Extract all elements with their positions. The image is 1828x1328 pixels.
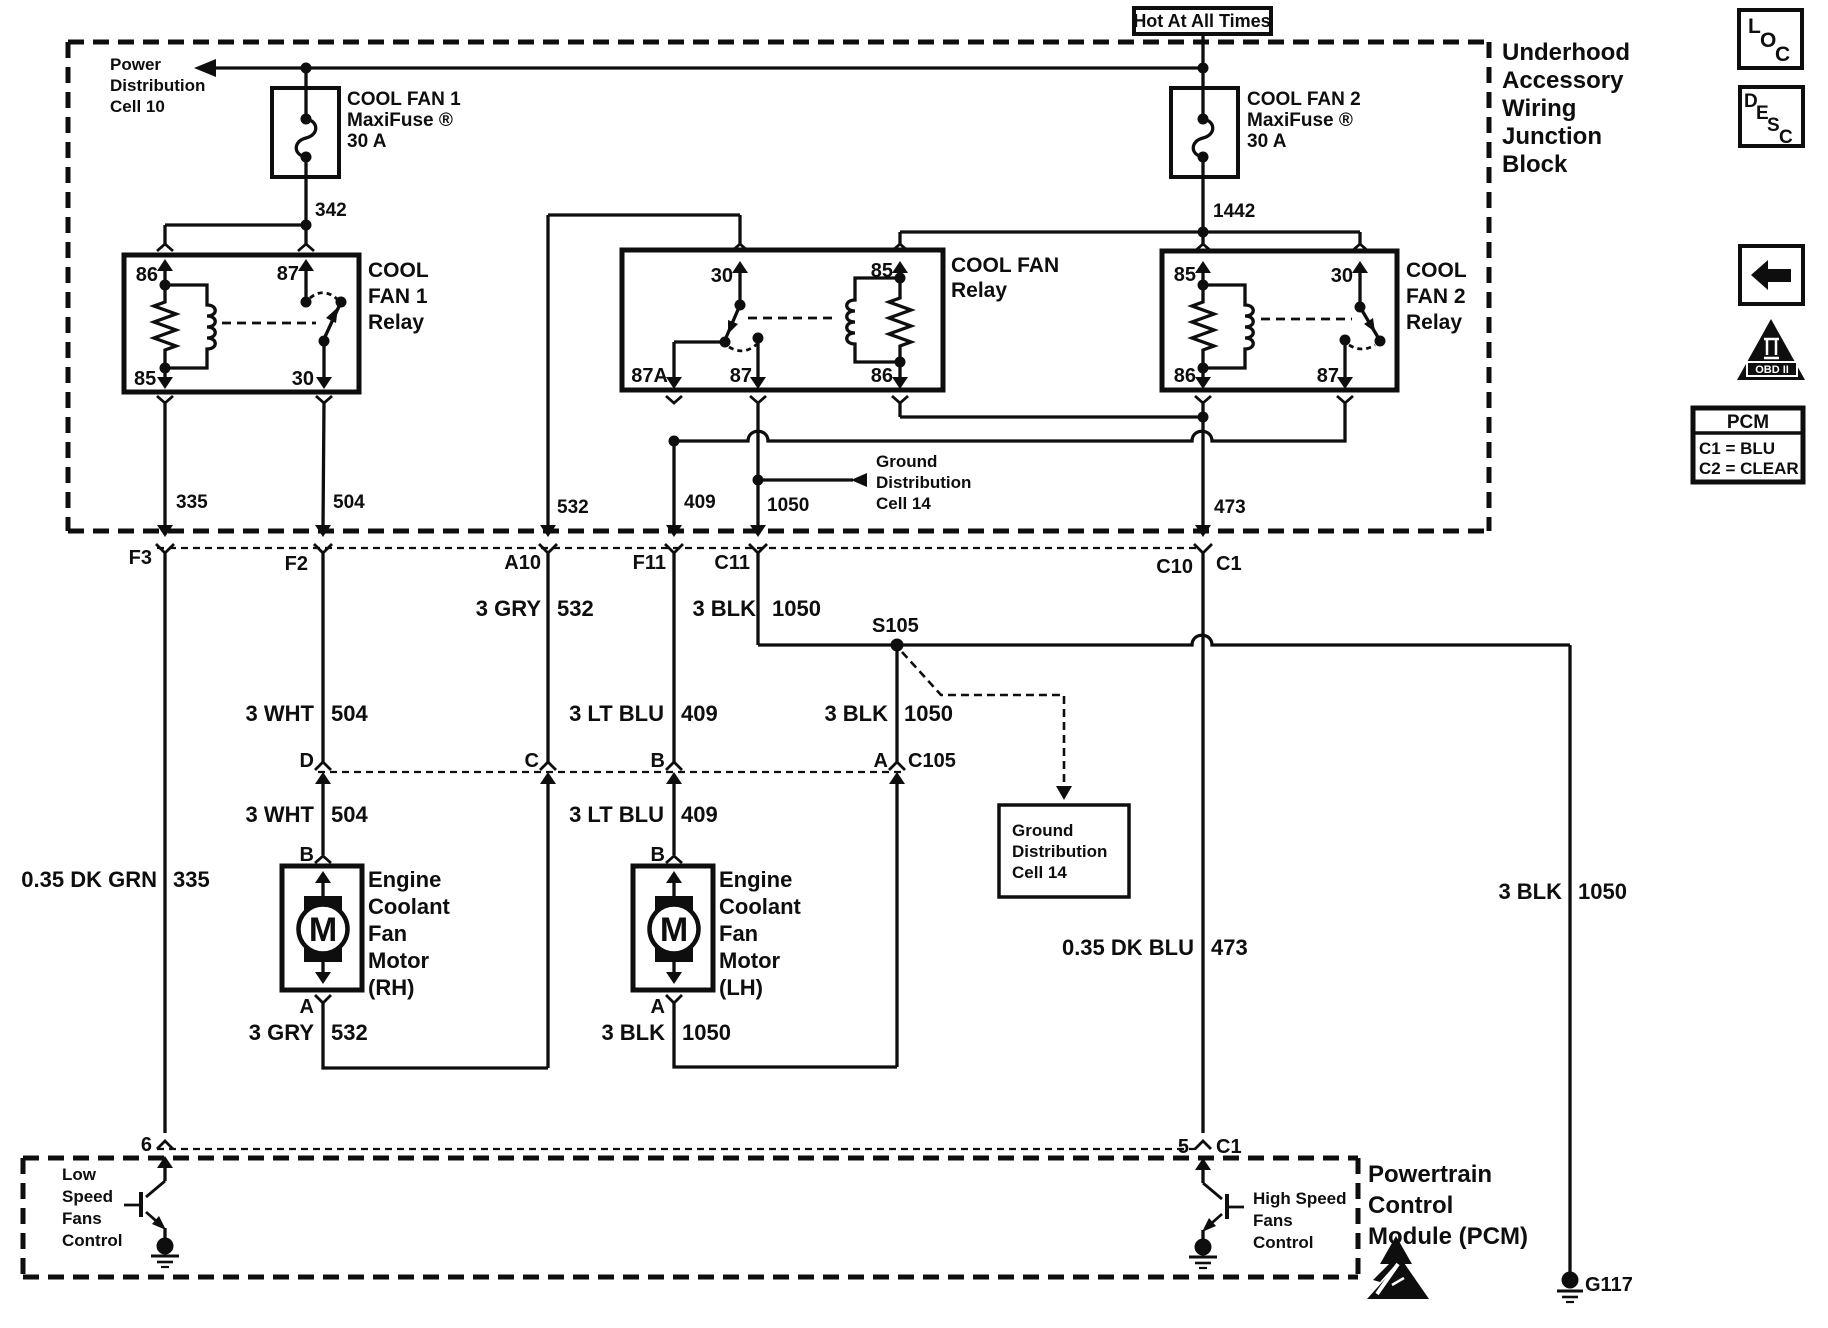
svg-text:M: M (660, 911, 688, 949)
svg-text:Coolant: Coolant (368, 894, 451, 919)
svg-text:1442: 1442 (1213, 201, 1255, 222)
resistor inside relay K2 (889, 278, 911, 362)
coil inside relay K2 (847, 278, 900, 362)
svg-text:504: 504 (331, 802, 368, 827)
dashed actuator line relay K2 (748, 317, 838, 320)
resistor inside relay K1 (154, 285, 176, 368)
wire: net 532 A10 to C105 C (546, 553, 549, 762)
svg-text:1050: 1050 (904, 701, 953, 726)
pin 87 relay K1 (277, 259, 314, 302)
wire: net 1050 right leg to G117 (1568, 645, 1571, 1273)
svg-text:Fan: Fan (719, 921, 758, 946)
wire: net 335 F3 down to PCM pin 6 (163, 553, 166, 1133)
relay K3: COOL FAN 2 Relay box (1162, 251, 1397, 390)
label: 3 WHT 504 (upper) (246, 701, 369, 726)
svg-text:30: 30 (292, 368, 314, 390)
svg-text:3 BLK: 3 BLK (692, 596, 756, 621)
wire: net 1050 C11 down and across to S105 (756, 553, 759, 645)
svg-text:Relay: Relay (951, 279, 1007, 302)
dashed contact arc relay K3 (1349, 345, 1375, 349)
relay K1: COOL FAN 1 Relay box (124, 255, 359, 392)
svg-text:C2 = CLEAR: C2 = CLEAR (1699, 459, 1799, 478)
ground: Q2 emitter ground (1189, 1239, 1217, 1269)
svg-text:1050: 1050 (767, 495, 809, 516)
svg-text:Junction: Junction (1502, 123, 1602, 150)
svg-text:(RH): (RH) (368, 975, 414, 1000)
svg-text:30 A: 30 A (1247, 131, 1287, 152)
svg-text:87A: 87A (631, 365, 668, 387)
wire: 342 branch to relay1 pins 86 and 87 (157, 225, 314, 251)
wire: motor M1 pin A loop to net 532 (323, 1003, 548, 1068)
svg-text:O: O (1760, 29, 1776, 52)
coil inside relay K3 (1203, 285, 1253, 368)
wire: net 504 from relay K1 pin 30 to border (315, 403, 365, 537)
svg-text:COOL FAN 1: COOL FAN 1 (347, 89, 461, 110)
dashed actuator line relay K3 (1261, 318, 1352, 321)
label: 3 LT BLU 409 (lower) (569, 802, 718, 827)
label: Engine Coolant Fan Motor (LH) (719, 867, 802, 1000)
flag: Hot At All Times (1133, 8, 1271, 34)
svg-text:3 BLK: 3 BLK (1498, 879, 1562, 904)
svg-text:Control: Control (62, 1231, 122, 1250)
svg-text:3 BLK: 3 BLK (601, 1020, 665, 1045)
legend: PCM connector colors (1693, 408, 1803, 482)
label: 3 BLK 1050 (at C105) (824, 701, 953, 726)
label: Engine Coolant Fan Motor (RH) (368, 867, 451, 1000)
motor M1: Engine Coolant Fan Motor (RH) (282, 844, 362, 1018)
svg-text:87: 87 (277, 263, 299, 285)
node: relay K2 pin 87 dot (753, 333, 764, 344)
svg-text:Ground: Ground (876, 452, 937, 471)
node: 342 junction dot (301, 220, 312, 231)
label: 3 BLK 1050 (upper) (692, 596, 821, 621)
svg-text:Fan: Fan (368, 921, 407, 946)
svg-text:COOL: COOL (368, 259, 429, 282)
node: relay K2 coil bottom dot (895, 357, 906, 368)
wire: net 473 C1 down to PCM pin 5 (1201, 553, 1204, 1133)
svg-text:A: A (651, 996, 665, 1018)
svg-text:0.35 DK GRN: 0.35 DK GRN (21, 867, 157, 892)
label: COOL FAN Relay (951, 254, 1059, 302)
svg-text:Wiring: Wiring (1502, 95, 1576, 122)
svg-text:86: 86 (871, 365, 893, 387)
svg-text:335: 335 (173, 867, 210, 892)
svg-text:409: 409 (681, 802, 718, 827)
svg-text:Relay: Relay (368, 311, 424, 334)
svg-text:Control: Control (1253, 1233, 1313, 1252)
svg-text:C: C (1779, 127, 1793, 148)
label: 0.35 DK BLU 473 (1062, 935, 1248, 960)
node: relay K3 pin 87 dot (1340, 335, 1351, 346)
icon: LOC box (1739, 10, 1802, 68)
svg-text:85: 85 (134, 368, 156, 390)
switch arm relay K1 (324, 302, 341, 339)
svg-text:A: A (300, 996, 314, 1018)
svg-text:Power: Power (110, 55, 161, 74)
svg-text:COOL: COOL (1406, 259, 1467, 282)
transistor Q2: High Speed Fans Control driver (1195, 1158, 1244, 1241)
svg-text:5: 5 (1178, 1136, 1189, 1158)
svg-text:Distribution: Distribution (876, 473, 971, 492)
pin 86 relay K3 (1174, 365, 1211, 403)
svg-text:Ground: Ground (1012, 821, 1073, 840)
svg-text:3 GRY: 3 GRY (476, 596, 542, 621)
svg-text:1050: 1050 (1578, 879, 1627, 904)
wire: net 409 F11 to C105 B (672, 553, 675, 762)
svg-text:Powertrain: Powertrain (1368, 1161, 1492, 1188)
wire: 1442 bus to relay K2 pin 85 and relay K3 pins (892, 232, 1368, 251)
label: COOL FAN 2 Relay (1406, 259, 1467, 334)
svg-text:PCM: PCM (1727, 412, 1769, 433)
label: High Speed Fans Control (1253, 1189, 1347, 1252)
svg-text:Cell 10: Cell 10 (110, 97, 165, 116)
node: junction dot hot bus (1198, 63, 1209, 74)
svg-text:30: 30 (1331, 265, 1353, 287)
node: relay K1 switch lower dot (319, 336, 330, 347)
svg-text:High Speed: High Speed (1253, 1189, 1347, 1208)
svg-text:S: S (1767, 115, 1780, 136)
node: relay K3 moving contact dot (1375, 336, 1386, 347)
svg-text:3 GRY: 3 GRY (249, 1020, 315, 1045)
transistor Q1: Low Speed Fans Control driver (124, 1156, 173, 1240)
svg-text:473: 473 (1211, 935, 1248, 960)
pin 86 relay K2 (871, 362, 908, 403)
svg-text:FAN 1: FAN 1 (368, 285, 428, 308)
svg-text:Motor: Motor (719, 948, 781, 973)
svg-text:A: A (874, 750, 888, 772)
svg-text:Fans: Fans (1253, 1211, 1293, 1230)
pin 87A relay K2 (631, 342, 725, 403)
svg-text:6: 6 (141, 1134, 152, 1156)
wire: net 1050 from relay K2 pin 87 down (756, 403, 759, 480)
svg-text:C11: C11 (714, 552, 750, 574)
svg-text:3 LT BLU: 3 LT BLU (569, 802, 664, 827)
svg-text:COOL FAN 2: COOL FAN 2 (1247, 89, 1361, 110)
svg-text:M: M (309, 911, 337, 949)
connector B of C105 (651, 750, 682, 855)
node: relay K1 switch pivot dot (301, 297, 312, 308)
svg-text:F3: F3 (129, 547, 152, 569)
svg-text:C: C (1775, 43, 1790, 66)
wire: link relay K2 pin 87A row to relay K3 pin 87 with hops (674, 403, 1345, 441)
ground G117 (1557, 1272, 1633, 1303)
node: relay K1 coil bottom dot (160, 363, 171, 374)
svg-text:30: 30 (711, 265, 733, 287)
label: COOL FAN 1 Relay (368, 259, 429, 334)
node: relay K2 coil top dot (895, 273, 906, 284)
svg-text:MaxiFuse ®: MaxiFuse ® (1247, 110, 1353, 131)
svg-text:G117: G117 (1585, 1274, 1633, 1296)
svg-text:87: 87 (1317, 365, 1339, 387)
connector row C105: thin dashed line (318, 771, 902, 773)
svg-text:532: 532 (331, 1020, 368, 1045)
label: 3 GRY 532 (upper) (476, 596, 594, 621)
icon: back arrow box (1740, 246, 1803, 304)
svg-text:Fans: Fans (62, 1209, 102, 1228)
svg-text:Distribution: Distribution (110, 76, 205, 95)
svg-text:Relay: Relay (1406, 311, 1462, 334)
label: fuse F2 text (1247, 89, 1361, 152)
connector row PCM: thin dashed line (157, 1148, 1196, 1150)
node: relay K2 switch lower dot (720, 337, 731, 348)
svg-text:3 BLK: 3 BLK (824, 701, 888, 726)
svg-text:F2: F2 (285, 553, 308, 575)
label: Underhood Accessory Wiring Junction Block (1502, 39, 1630, 178)
label: Powertrain Control Module (PCM) (1368, 1161, 1528, 1250)
label: 3 LT BLU 409 (upper) (569, 701, 718, 726)
label: 3 BLK 1050 (lower) (601, 1020, 731, 1045)
svg-text:335: 335 (176, 492, 208, 513)
svg-text:C105: C105 (908, 750, 956, 772)
reference arrow to Ground Distribution Cell 14 (758, 473, 867, 487)
node: relay K3 switch pivot dot (1355, 302, 1366, 313)
svg-text:0.35 DK BLU: 0.35 DK BLU (1062, 935, 1194, 960)
svg-text:86: 86 (1174, 365, 1196, 387)
svg-text:30 A: 30 A (347, 131, 387, 152)
motor M2: Engine Coolant Fan Motor (LH) (633, 844, 713, 1018)
svg-text:Speed: Speed (62, 1187, 113, 1206)
pin 87 relay K3 (1317, 340, 1353, 403)
label: 3 BLK 1050 (right) (1498, 879, 1627, 904)
svg-text:85: 85 (871, 260, 893, 282)
wire: net 409 from junction to border (666, 441, 716, 537)
connector A10 (504, 544, 557, 574)
svg-text:86: 86 (136, 264, 158, 286)
svg-text:Accessory: Accessory (1502, 67, 1624, 94)
svg-text:Motor: Motor (368, 948, 430, 973)
icon: OBD II triangle (1737, 319, 1805, 380)
label: fuse F1 text (347, 89, 461, 152)
node: relay K3 coil bottom dot (1198, 363, 1209, 374)
ground: Q1 emitter ground (151, 1238, 179, 1268)
icon: DESC box (1740, 87, 1803, 148)
node: 1442 junction dot (1198, 227, 1209, 238)
wire: motor M2 pin A loop to net 1050 (674, 1003, 897, 1067)
label: 0.35 DK GRN 335 (21, 867, 209, 892)
svg-text:B: B (300, 844, 314, 866)
node: junction dot 473 net at relay K3 pin 86 (1198, 412, 1209, 423)
svg-text:MaxiFuse ®: MaxiFuse ® (347, 110, 453, 131)
splice S105 (891, 639, 904, 652)
connector F3 (129, 544, 174, 569)
svg-text:F11: F11 (633, 552, 666, 574)
svg-text:409: 409 (681, 701, 718, 726)
wire: link relay K2 pin 86 to relay K3 pin 86 (900, 403, 1203, 417)
resistor inside relay K3 (1192, 285, 1214, 368)
wire: net 1050 to border (750, 480, 809, 537)
svg-text:B: B (651, 844, 665, 866)
svg-text:3 WHT: 3 WHT (246, 802, 315, 827)
svg-text:OBD II: OBD II (1755, 364, 1789, 376)
wire: net 335 from relay K1 pin 85 to border (157, 403, 208, 537)
connector D of C105 (300, 750, 331, 855)
svg-text:409: 409 (684, 492, 716, 513)
node: relay K3 coil top dot (1198, 280, 1209, 291)
svg-text:532: 532 (557, 497, 589, 518)
pin 85 relay K3 (1174, 261, 1211, 286)
relay K2: COOL FAN Relay box (622, 250, 943, 390)
svg-text:Engine: Engine (368, 867, 441, 892)
wire: main power bus y=68 with off-page arrow to Power Distribution (194, 59, 1203, 77)
svg-text:Block: Block (1502, 151, 1568, 178)
box: Ground Distribution Cell 14 (999, 805, 1129, 897)
node: junction dot 1050 ground ref (753, 475, 764, 486)
ESD sensitivity symbol (1367, 1236, 1429, 1299)
svg-text:D: D (300, 750, 314, 772)
label: Ground Distribution Cell 14 (reference) (876, 452, 971, 513)
svg-text:B: B (651, 750, 665, 772)
pin 30 relay K1 (292, 341, 332, 403)
pin 87 relay K2 (730, 338, 766, 403)
svg-text:1050: 1050 (682, 1020, 731, 1045)
svg-text:FAN 2: FAN 2 (1406, 285, 1466, 308)
svg-text:Coolant: Coolant (719, 894, 802, 919)
pin 86 relay K1 (136, 259, 173, 286)
svg-text:C1 = BLU: C1 = BLU (1699, 439, 1775, 458)
connector row: thin dashed interface line (157, 547, 1196, 549)
fuse F2: COOL FAN 2 MaxiFuse 30 A (1171, 88, 1238, 232)
connector pin 5 C1 PCM (1178, 1136, 1242, 1158)
label: Low Speed Fans Control (62, 1165, 122, 1250)
dashed contact arc relay K1 (310, 293, 337, 299)
svg-text:1050: 1050 (772, 596, 821, 621)
svg-text:Engine: Engine (719, 867, 792, 892)
node: relay K1 coil top dot (160, 280, 171, 291)
svg-text:Underhood: Underhood (1502, 39, 1630, 66)
label: Power Distribution Cell 10 (110, 55, 205, 116)
svg-text:504: 504 (331, 701, 368, 726)
svg-text:473: 473 (1214, 497, 1246, 518)
pin 30 relay K2 (711, 261, 748, 305)
dashed reference from S105 to Ground Distribution Cell 14 box (902, 652, 1072, 800)
node: relay K1 moving contact dot (336, 297, 347, 308)
dashed actuator line relay K1 (222, 322, 316, 325)
svg-text:87: 87 (730, 365, 752, 387)
svg-text:85: 85 (1174, 264, 1196, 286)
connector A of C105 (874, 750, 956, 1067)
svg-text:COOL FAN: COOL FAN (951, 254, 1059, 277)
coil inside relay K1 (165, 285, 215, 368)
svg-text:Distribution: Distribution (1012, 842, 1107, 861)
connector C of C105 (525, 750, 556, 1068)
svg-text:Cell 14: Cell 14 (876, 494, 931, 513)
svg-text:342: 342 (315, 200, 347, 221)
PCM dashed border (Powertrain Control Module) (23, 1158, 1358, 1277)
svg-text:Hot At All Times: Hot At All Times (1133, 11, 1270, 31)
svg-text:3 WHT: 3 WHT (246, 701, 315, 726)
svg-text:504: 504 (333, 492, 365, 513)
svg-text:C: C (525, 750, 539, 772)
pin 85 relay K1 (134, 368, 173, 403)
connector F11 (633, 544, 683, 574)
svg-text:3 LT BLU: 3 LT BLU (569, 701, 664, 726)
svg-text:A10: A10 (504, 552, 541, 574)
fuse F1: COOL FAN 1 MaxiFuse 30 A (272, 68, 339, 225)
svg-text:C10: C10 (1156, 556, 1193, 578)
svg-text:532: 532 (557, 596, 594, 621)
svg-text:(LH): (LH) (719, 975, 763, 1000)
svg-text:C1: C1 (1216, 553, 1242, 575)
wire: net 473 from junction to border (1195, 417, 1246, 537)
wire: hot feed from flag down to fuse 2 (1201, 34, 1204, 118)
svg-text:Control: Control (1368, 1192, 1453, 1219)
wire: 532 link from A10 up to relay K2 pin 30 (540, 215, 748, 537)
pin 30 relay K3 (1331, 261, 1368, 307)
svg-text:S105: S105 (872, 615, 919, 637)
wire: net 504 F2 to C105 D (321, 553, 324, 762)
svg-text:C1: C1 (1216, 1136, 1242, 1158)
wire: net 1050 S105 down through C105 A to motor LH (895, 645, 898, 762)
node: relay K2 switch pivot dot (735, 300, 746, 311)
svg-text:Low: Low (62, 1165, 97, 1184)
svg-text:Cell 14: Cell 14 (1012, 863, 1067, 882)
switch arm relay K3 (1360, 307, 1379, 339)
connector C10 / C1 (1156, 544, 1241, 578)
connector F2 (285, 544, 332, 575)
label: 3 WHT 504 (lower) (246, 802, 369, 827)
label: 3 GRY 532 (lower) (249, 1020, 368, 1045)
node: fuse1 tap dot (301, 63, 312, 74)
connector C11 (714, 544, 767, 574)
connector pin 6 PCM (141, 1134, 173, 1156)
junction block dashed border (Underhood Accessory Wiring Junction Block) (68, 42, 1489, 531)
dashed contact arc relay K2 (729, 344, 757, 351)
pin 85 relay K2 (871, 260, 908, 282)
node: junction dot 409 net below pin 87A (669, 436, 680, 447)
switch arm relay K2 (725, 305, 740, 340)
wire: S105 bus across with hop over 473 (758, 635, 1570, 645)
